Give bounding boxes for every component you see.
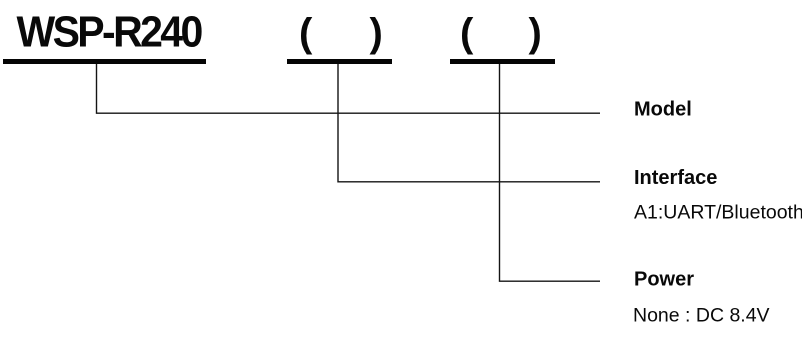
svg-text:(: ( <box>299 11 313 55</box>
underline interface field <box>287 59 392 64</box>
wire power <box>500 64 601 281</box>
svg-text:(: ( <box>460 11 474 55</box>
wire interface <box>338 64 600 182</box>
svg-text:): ) <box>529 11 542 55</box>
svg-text:Interface: Interface <box>634 167 717 189</box>
svg-text:None : DC 8.4V: None : DC 8.4V <box>633 305 770 327</box>
svg-text:): ) <box>370 11 383 55</box>
underline power field <box>450 59 555 64</box>
wire model <box>97 64 601 113</box>
svg-text:A1:UART/Bluetooth: A1:UART/Bluetooth <box>634 202 802 224</box>
svg-text:Model: Model <box>634 99 692 121</box>
title WSP-R240 <box>17 7 202 56</box>
svg-text:WSP-R240: WSP-R240 <box>17 7 202 56</box>
svg-text:Power: Power <box>634 269 694 291</box>
underline model field <box>3 59 206 64</box>
